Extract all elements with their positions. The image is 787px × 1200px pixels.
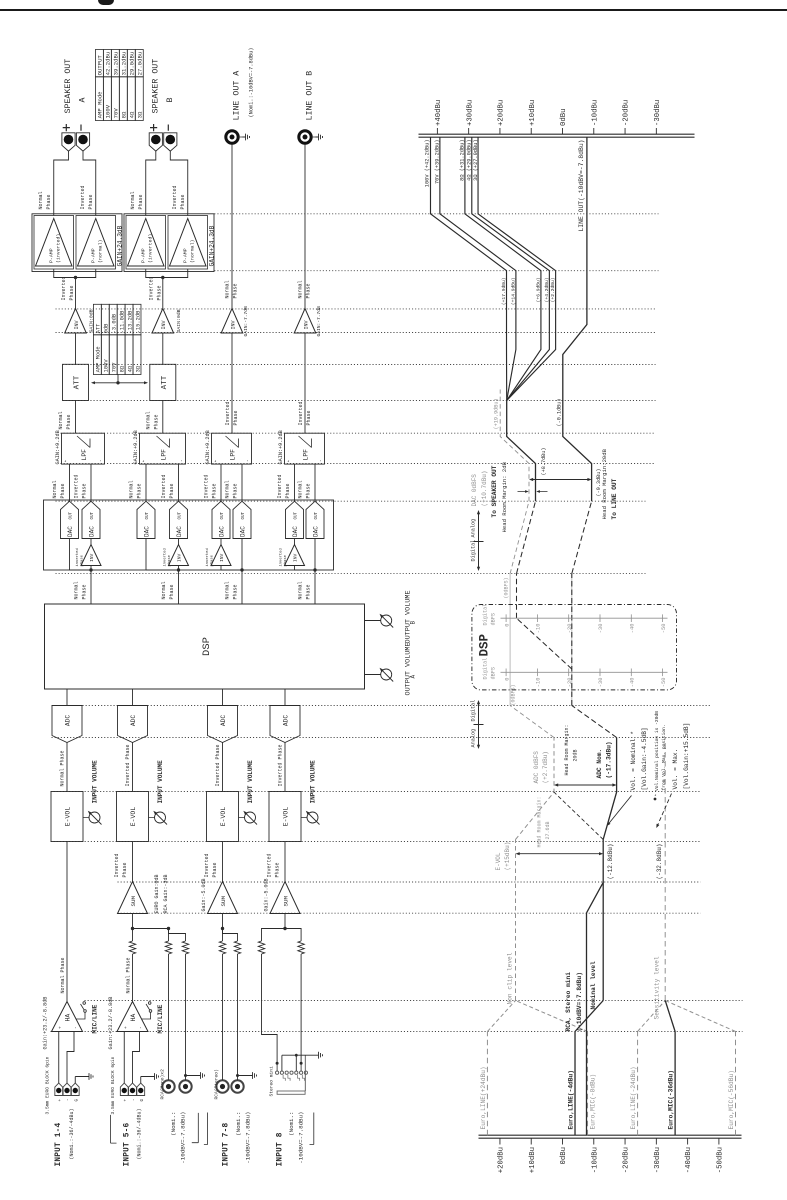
svg-text:(Nomi.:: (Nomi.: xyxy=(288,1112,295,1136)
svg-text:(Nomi.:-10dBV=-7.8dBu): (Nomi.:-10dBV=-7.8dBu) xyxy=(249,48,255,118)
svg-text:-: - xyxy=(139,1026,144,1029)
svg-text:+: + xyxy=(124,1099,128,1102)
svg-text:MIC/LINE: MIC/LINE xyxy=(92,1004,99,1033)
output level axis xyxy=(419,100,695,137)
svg-text:EURO Gain:0dB: EURO Gain:0dB xyxy=(154,874,160,913)
ADC ch3 xyxy=(208,706,238,743)
svg-text:AMP Mode: AMP Mode xyxy=(97,91,104,118)
wires euro to HA INPUT 5-6 xyxy=(124,1032,141,1084)
analog/digital boundary at ADC xyxy=(471,700,484,749)
wire DSP out ch1 xyxy=(89,568,92,604)
svg-text:Inverted: Inverted xyxy=(161,474,167,498)
svg-text:P-AMP: P-AMP xyxy=(182,248,188,263)
svg-text:HA: HA xyxy=(65,1014,72,1022)
svg-text:70V: 70V xyxy=(113,108,120,119)
svg-text:3Ω: 3Ω xyxy=(135,365,141,372)
input volume knob ch4 xyxy=(306,760,320,825)
svg-text:GAIN:+9.2dB: GAIN:+9.2dB xyxy=(278,430,284,464)
svg-text:Normal: Normal xyxy=(225,480,231,498)
svg-text:OUT: OUT xyxy=(315,511,319,519)
svg-text:RCA(Mono)x2: RCA(Mono)x2 xyxy=(160,1069,166,1100)
speaker connector B xyxy=(149,133,162,151)
P-AMP (inverted) A xyxy=(34,216,74,270)
DSP dashed box xyxy=(472,605,677,690)
svg-text:A: A xyxy=(79,98,88,103)
DAC OUT ch2 nrm xyxy=(137,501,155,538)
branch wire ch1 xyxy=(70,539,92,571)
wire E-VOL to ADC ch4 xyxy=(284,743,286,792)
svg-text:*: * xyxy=(287,460,293,463)
svg-text:OUT: OUT xyxy=(295,511,299,519)
input label INPUT 5-6 xyxy=(111,1108,143,1166)
svg-text:ADC: ADC xyxy=(220,715,227,726)
E-VOL ch1 xyxy=(51,792,89,842)
svg-text:HA: HA xyxy=(130,1014,137,1022)
svg-text:Phase: Phase xyxy=(233,584,239,599)
svg-text:(Nomi.:-36/-4dBu): (Nomi.:-36/-4dBu) xyxy=(137,1108,143,1159)
svg-text:+: + xyxy=(124,1026,129,1029)
20dB line-out margin arrow xyxy=(529,448,618,519)
svg-text:Phase: Phase xyxy=(212,483,218,498)
svg-text:Phase: Phase xyxy=(88,194,94,209)
P-AMP (inverted) B xyxy=(126,216,166,270)
svg-text:ATT: ATT xyxy=(161,375,169,389)
digital domain 0dBFS / -20dBFS grey lines xyxy=(504,574,572,706)
svg-text:3.5mm EURO BLOCK 6pin: 3.5mm EURO BLOCK 6pin xyxy=(45,1056,51,1114)
DAC OUT ch4 inv xyxy=(286,501,304,538)
input label INPUT 7-8 xyxy=(204,1112,252,1167)
svg-text:inverted: inverted xyxy=(75,548,80,566)
svg-text:Inverted: Inverted xyxy=(80,185,86,209)
speaker output fan traces xyxy=(430,137,506,400)
svg-text:(Nomi.:-36/-4dBu): (Nomi.:-36/-4dBu) xyxy=(69,1108,75,1159)
svg-text:Phase: Phase xyxy=(180,194,186,209)
svg-text:-10dBV=-7.8dBu): -10dBV=-7.8dBu) xyxy=(245,1112,252,1164)
wire LPF to ATT ch1 xyxy=(75,401,77,434)
svg-text:*: * xyxy=(64,460,70,463)
DAC OUT ch1 inv xyxy=(82,501,100,538)
svg-text:Normal: Normal xyxy=(161,581,167,599)
svg-text:DAC: DAC xyxy=(176,526,183,537)
wire ch2 HA out with resistor xyxy=(129,914,135,1002)
svg-text:Phase: Phase xyxy=(306,584,312,599)
svg-text:Normal: Normal xyxy=(298,280,304,298)
wire ATT to INV ch2 xyxy=(162,333,164,364)
svg-text:DAC: DAC xyxy=(89,526,96,537)
svg-text:INV: INV xyxy=(89,553,95,562)
wires node to P-AMPs A xyxy=(54,269,96,278)
P-AMP outer box chB xyxy=(124,214,214,272)
svg-text:*: * xyxy=(142,460,148,463)
svg-text:-15.2dB: -15.2dB xyxy=(135,310,141,333)
svg-text:Phase: Phase xyxy=(69,285,75,300)
svg-text:SPEAKER OUT: SPEAKER OUT xyxy=(151,59,160,114)
speaker connector A xyxy=(76,133,89,151)
svg-text:INPUT VOLUME: INPUT VOLUME xyxy=(92,760,99,804)
svg-text:LPF: LPF xyxy=(161,449,168,461)
svg-text:(Nomi.:: (Nomi.: xyxy=(235,1112,242,1136)
svg-text:INV: INV xyxy=(303,320,309,329)
header logo remnant xyxy=(98,0,114,5)
small INV ch1 xyxy=(75,539,101,571)
svg-text:LPF: LPF xyxy=(81,449,88,461)
ATT ch1 xyxy=(63,364,89,400)
wire ATT to INV ch1 xyxy=(75,333,77,364)
svg-text:4Ω: 4Ω xyxy=(127,365,133,372)
svg-text:DAC: DAC xyxy=(67,526,74,537)
svg-text:DSP: DSP xyxy=(201,637,213,656)
svg-text:-: - xyxy=(246,459,251,462)
grey dashed ADC clip to 0dBFS xyxy=(510,706,554,738)
input label INPUT 1-4 xyxy=(55,1108,75,1166)
head room margin 27.6dB arrow xyxy=(516,796,604,855)
DAC OUT ch3 nrm xyxy=(233,501,251,538)
svg-text:ATT: ATT xyxy=(74,375,82,389)
svg-text:GAIN+24.3dB: GAIN+24.3dB xyxy=(117,225,124,266)
SUM amp ch3 xyxy=(201,878,238,913)
wire ADC to DSP ch2 xyxy=(132,690,134,706)
speaker out labels A xyxy=(63,59,88,131)
trace Euro MIC -56dBu (grey dashed) xyxy=(665,1001,735,1136)
svg-text:inverted: inverted xyxy=(278,548,283,566)
svg-text:-10dBV=-7.8dBu): -10dBV=-7.8dBu) xyxy=(298,1112,305,1164)
wires P-AMP outputs to connectors A xyxy=(54,151,96,215)
svg-text:GAIN:+9.2dB: GAIN:+9.2dB xyxy=(55,430,61,464)
wire ch1 HA to E-VOL xyxy=(66,842,68,1002)
svg-text:29.0dBu: 29.0dBu xyxy=(129,52,136,76)
svg-text:Inverted: Inverted xyxy=(61,276,67,300)
vol max dashed trace to ADC clip xyxy=(554,792,603,839)
svg-text:INV: INV xyxy=(219,553,225,562)
svg-text:(inverted): (inverted) xyxy=(147,234,153,263)
wire DSP out ch3 xyxy=(240,568,243,604)
speaker connector B xyxy=(164,133,177,151)
svg-text:Gain:-5.0dB: Gain:-5.0dB xyxy=(264,878,270,911)
input level axis xyxy=(479,1135,742,1173)
svg-text:Gain:-5.0dB: Gain:-5.0dB xyxy=(201,878,207,911)
head room margin 20dB arrow (ADC) xyxy=(554,724,617,786)
svg-text:OUT: OUT xyxy=(221,511,225,519)
speaker output table xyxy=(95,50,143,121)
svg-text:Inverted: Inverted xyxy=(298,401,304,425)
svg-text:-: - xyxy=(74,1026,79,1029)
svg-text:100V: 100V xyxy=(105,104,112,118)
svg-text:INPUT VOLUME: INPUT VOLUME xyxy=(157,760,164,804)
svg-text:DAC: DAC xyxy=(219,526,226,537)
svg-text:Phase: Phase xyxy=(233,410,239,425)
svg-text:E-VOL: E-VOL xyxy=(130,807,137,827)
INV amp ch1 xyxy=(65,309,95,334)
nominal trace: HA out to ADC xyxy=(603,738,616,1001)
svg-text:Normal: Normal xyxy=(58,411,64,429)
svg-text:Normal: Normal xyxy=(130,191,136,209)
svg-text:AMP Mode: AMP Mode xyxy=(96,346,102,372)
svg-text:INPUT 8: INPUT 8 xyxy=(277,1132,285,1166)
ground euro INPUT 5-6 xyxy=(141,1073,159,1080)
trace Euro LINE -4dBu (nominal, black) xyxy=(568,1001,604,1136)
P-AMP (normal) A xyxy=(76,216,116,270)
wire ADC to DSP ch3 xyxy=(222,690,224,706)
wire DSP out ch2 xyxy=(177,568,180,604)
svg-text:Phase: Phase xyxy=(306,283,312,298)
svg-text:Phase: Phase xyxy=(122,862,128,877)
svg-text:3.5mm EURO BLOCK 6pin: 3.5mm EURO BLOCK 6pin xyxy=(110,1056,116,1114)
SUM amp ch4 xyxy=(264,878,301,913)
digital/analog boundary at DAC xyxy=(471,510,484,571)
MIC/LINE switch INPUT 5-6 xyxy=(142,1002,164,1034)
svg-text:Phase: Phase xyxy=(169,483,175,498)
svg-text:GAIN:0dB: GAIN:0dB xyxy=(176,309,182,332)
svg-text:ADC: ADC xyxy=(65,715,72,726)
wire DAC to LPF ch1 xyxy=(90,464,92,501)
INV amp ch4 xyxy=(294,306,322,337)
DAC OUT ch3 inv xyxy=(212,501,230,538)
label RCA stereo mini nominal xyxy=(565,961,597,1032)
stereo mini connector xyxy=(269,1055,308,1096)
trace Euro LINE -24dBu (grey dashed) xyxy=(630,1001,665,1136)
svg-text:(normal): (normal) xyxy=(189,239,195,263)
svg-text:INV: INV xyxy=(161,320,167,329)
input label INPUT 8 xyxy=(277,1112,314,1167)
svg-text:-3.0dB: -3.0dB xyxy=(112,313,118,333)
svg-text:(Nomi.:: (Nomi.: xyxy=(170,1112,177,1136)
svg-text:E-VOL: E-VOL xyxy=(283,807,290,827)
svg-text:-: - xyxy=(180,459,185,462)
non clip grey line (E-VOL +15dBu) xyxy=(495,738,554,1001)
svg-text:E-VOL: E-VOL xyxy=(65,807,72,827)
output volume knob A xyxy=(365,642,417,695)
svg-text:P-AMP: P-AMP xyxy=(140,248,146,263)
P-AMP outer box chA xyxy=(32,214,122,272)
wire LPF to INV ch3 xyxy=(231,333,233,433)
svg-text:INPUT 7-8: INPUT 7-8 xyxy=(223,1122,231,1166)
dashed digital nominal trace xyxy=(517,574,617,738)
wires stereo mini to SUM xyxy=(258,914,304,1072)
line out jack A xyxy=(226,131,250,143)
svg-text:ADC: ADC xyxy=(130,715,137,726)
svg-text:A: A xyxy=(410,675,417,679)
svg-text:Normal: Normal xyxy=(52,480,58,498)
wire ch2 SUM to E-VOL xyxy=(132,842,134,882)
svg-text:70V: 70V xyxy=(112,362,118,372)
DSP block xyxy=(45,604,365,689)
svg-text:Gain:+23.2/-8.8dB: Gain:+23.2/-8.8dB xyxy=(108,997,114,1050)
wire ch4 SUM to E-VOL xyxy=(284,842,286,882)
DSP dBFS ruler left xyxy=(483,658,668,688)
svg-text:(inverted): (inverted) xyxy=(55,234,61,263)
E-VOL ch4 xyxy=(269,792,307,842)
svg-text:SUM: SUM xyxy=(220,896,227,907)
wires euro to HA INPUT 1-4 xyxy=(59,1032,76,1084)
SUM amp ch2 xyxy=(118,874,170,913)
svg-text:INV: INV xyxy=(293,553,299,562)
svg-text:INV: INV xyxy=(74,320,80,329)
page header rule xyxy=(0,9,787,11)
wire DAC to LPF ch1 xyxy=(69,464,71,501)
ADC Nom label xyxy=(596,741,613,778)
ATT table arrow xyxy=(91,375,148,385)
wire INV to line out jack ch4 xyxy=(304,143,306,308)
DAC OUT ch1 nrm xyxy=(61,501,79,538)
ATT mode table xyxy=(93,304,141,374)
svg-text:INPUT VOLUME: INPUT VOLUME xyxy=(247,760,254,804)
svg-text:Inverted: Inverted xyxy=(74,474,80,498)
svg-text:Inverted: Inverted xyxy=(277,474,283,498)
input volume knob ch3 xyxy=(243,760,257,825)
speaker solid trace after DAC xyxy=(507,401,547,502)
svg-text:B: B xyxy=(166,98,175,103)
HA amp INPUT 1-4 xyxy=(43,997,83,1050)
svg-text:INPUT 5-6: INPUT 5-6 xyxy=(124,1122,132,1166)
svg-text:Inverted: Inverted xyxy=(225,401,231,425)
svg-text:Phase: Phase xyxy=(46,194,52,209)
svg-text:INPUT VOLUME: INPUT VOLUME xyxy=(310,760,317,804)
svg-text:P-AMP: P-AMP xyxy=(90,248,96,263)
small INV ch2 xyxy=(162,539,188,571)
svg-text:Phase: Phase xyxy=(60,483,66,498)
svg-text:Normal: Normal xyxy=(225,581,231,599)
svg-text:LINE OUT B: LINE OUT B xyxy=(306,71,315,121)
svg-text:inverted: inverted xyxy=(162,548,167,566)
svg-text:Normal: Normal xyxy=(225,280,231,298)
svg-text:4Ω: 4Ω xyxy=(129,111,136,118)
svg-text:Normal Phase: Normal Phase xyxy=(60,957,66,993)
wires P-AMP outputs to connectors B xyxy=(146,151,188,215)
svg-text:phase: phase xyxy=(167,554,172,566)
svg-text:Phase: Phase xyxy=(233,283,239,298)
euro block connector INPUT 5-6 xyxy=(110,1056,145,1114)
wire LPF to INV ch4 xyxy=(304,333,306,433)
svg-text:GAIN:+9.2dB: GAIN:+9.2dB xyxy=(205,430,211,464)
fan output labels xyxy=(425,140,479,188)
svg-text:DAC: DAC xyxy=(240,526,247,537)
svg-text:Phase: Phase xyxy=(156,285,162,300)
svg-text:Phase: Phase xyxy=(82,483,88,498)
svg-text:OUT: OUT xyxy=(91,511,95,519)
svg-text:inverted: inverted xyxy=(205,548,210,566)
RCA(Stereo) jacks xyxy=(214,1069,244,1099)
wire DSP out ch4 xyxy=(313,568,316,604)
svg-text:DAC: DAC xyxy=(144,526,151,537)
svg-text:GAIN:-7.7dB: GAIN:-7.7dB xyxy=(316,306,322,337)
LPF ch2 xyxy=(133,430,186,464)
ADC ch1 xyxy=(52,706,82,743)
svg-text:-: - xyxy=(67,1098,71,1101)
svg-text:OUT: OUT xyxy=(146,511,150,519)
wire INV to line out jack ch3 xyxy=(231,143,233,308)
dashed crossover DAC boundary to analog xyxy=(510,501,591,573)
wire DAC to LPF ch3 xyxy=(220,464,222,501)
svg-text:INPUT 1-4: INPUT 1-4 xyxy=(55,1122,63,1166)
wire E-VOL to ADC ch2 xyxy=(132,743,134,792)
svg-text:G: G xyxy=(75,1099,79,1102)
svg-text:LINE OUT A: LINE OUT A xyxy=(233,71,242,121)
E-VOL ch3 xyxy=(207,792,245,842)
svg-text:Phase: Phase xyxy=(212,862,218,877)
line out solid trace after DAC xyxy=(556,137,602,501)
RCA(Mono)x2 jacks xyxy=(160,1069,192,1100)
svg-text:OUT: OUT xyxy=(179,511,183,519)
wire E-VOL to ADC ch3 xyxy=(222,743,224,792)
svg-text:phase: phase xyxy=(210,554,215,566)
wire DAC to LPF ch3 xyxy=(241,464,243,501)
svg-text:0dB: 0dB xyxy=(104,323,110,333)
svg-text:Normal: Normal xyxy=(38,191,44,209)
svg-text:8Ω: 8Ω xyxy=(119,365,125,372)
INV amp ch2 xyxy=(152,309,182,334)
svg-text:SUM: SUM xyxy=(130,896,137,907)
speaker connector A xyxy=(62,133,75,151)
svg-text:Stereo mini: Stereo mini xyxy=(269,1066,275,1097)
svg-text:Phase: Phase xyxy=(66,414,72,429)
svg-text:Inverted: Inverted xyxy=(204,474,210,498)
svg-text:39.2dBu: 39.2dBu xyxy=(113,52,120,76)
RCA input nominal label xyxy=(170,1112,198,1164)
svg-text:-: - xyxy=(319,459,324,462)
branch wire ch4 xyxy=(295,539,316,571)
ATT ch2 xyxy=(150,364,176,400)
svg-text:27.0dBu: 27.0dBu xyxy=(137,52,144,76)
Vol nominal annotation xyxy=(607,727,648,826)
svg-text:-13.2dB: -13.2dB xyxy=(127,310,133,333)
svg-text:ATT: ATT xyxy=(96,323,102,333)
svg-text:Phase: Phase xyxy=(82,584,88,599)
input volume knob ch1 xyxy=(88,760,102,825)
svg-text:Phase: Phase xyxy=(169,584,175,599)
svg-text:INV: INV xyxy=(230,320,236,329)
input volume knob ch2 xyxy=(153,760,167,825)
svg-text:Phase: Phase xyxy=(138,194,144,209)
output volume knob B xyxy=(365,590,417,643)
svg-text:Inverted Phase: Inverted Phase xyxy=(278,744,284,786)
ground RCA ch2 xyxy=(184,1072,205,1079)
wire E-VOL to ADC ch1 xyxy=(66,743,68,792)
HA amp INPUT 5-6 xyxy=(108,997,148,1050)
ground euro INPUT 1-4 xyxy=(75,1073,93,1080)
wire DAC to LPF ch2 xyxy=(145,464,147,501)
svg-text:+: + xyxy=(59,1099,63,1102)
svg-text:GAIN:-7.7dB: GAIN:-7.7dB xyxy=(243,306,249,337)
ADC ch4 xyxy=(270,706,300,743)
DSP dBFS ruler right xyxy=(483,604,668,634)
P-AMP (normal) B xyxy=(168,216,208,270)
wire ADC to DSP ch1 xyxy=(66,690,68,706)
svg-text:Normal Phase: Normal Phase xyxy=(60,750,66,786)
euro block connector INPUT 1-4 xyxy=(45,1056,80,1114)
small INV ch3 xyxy=(205,539,231,571)
svg-text:SPEAKER OUT: SPEAKER OUT xyxy=(64,59,73,114)
trace Euro LINE +24dBu (non clip, grey) xyxy=(480,1001,516,1136)
svg-text:SUM: SUM xyxy=(283,896,290,907)
wires node to P-AMPs B xyxy=(146,269,188,278)
svg-text:LPF: LPF xyxy=(230,449,237,461)
wire DAC to LPF ch4 xyxy=(294,464,296,501)
2dB margin arrows xyxy=(518,490,548,493)
svg-text:31.2dBu: 31.2dBu xyxy=(121,52,128,76)
svg-text:B: B xyxy=(410,621,417,625)
wire ADC to DSP ch4 xyxy=(284,690,286,706)
grey clip line after DAC xyxy=(494,390,529,502)
svg-text:G: G xyxy=(141,1099,145,1102)
svg-text:Phase: Phase xyxy=(233,483,239,498)
speaker out labels B xyxy=(150,59,175,131)
small INV ch4 xyxy=(278,539,304,571)
svg-text:Phase: Phase xyxy=(285,483,291,498)
svg-text:GAIN:+9.2dB: GAIN:+9.2dB xyxy=(133,430,139,464)
LPF ch3 xyxy=(205,430,252,464)
svg-text:100V: 100V xyxy=(104,359,110,373)
svg-text:Phase: Phase xyxy=(275,862,281,877)
